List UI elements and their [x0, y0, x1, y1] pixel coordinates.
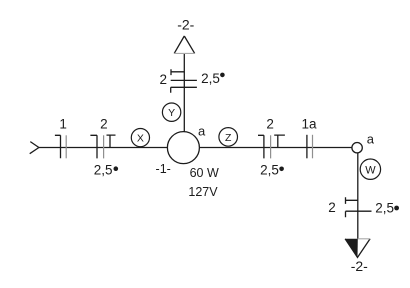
svg-text:2: 2 — [100, 117, 108, 132]
conductor marks circuit 2 left (return with flag) — [90, 135, 97, 158]
node a (junction circle) — [352, 143, 362, 153]
svg-text:2,5: 2,5 — [94, 163, 113, 178]
svg-text:1: 1 — [59, 117, 67, 132]
conductor marks circuit 2 left (phase, light) — [103, 135, 105, 158]
lamp 60W 127V — [167, 132, 199, 164]
svg-text:a: a — [198, 123, 206, 138]
conductor marks circuit 1a (light) — [312, 135, 314, 159]
conductor marks circuit 2 right (neutral with T bar) — [274, 135, 285, 147]
wire main horizontal left segment — [39, 147, 168, 149]
conductor marks circuit 2 right (phase, light) — [270, 135, 272, 158]
svg-text:Z: Z — [225, 132, 232, 144]
wire vertical top branch — [183, 54, 185, 132]
svg-text:-2-: -2- — [351, 258, 368, 274]
conductor marks W branch (return with flag) — [346, 211, 372, 217]
conductor marks top branch (return with flag) — [171, 87, 197, 92]
conductor marks top branch (phase) — [171, 79, 197, 81]
conductor marks circuit 1 (return with flag) — [55, 135, 61, 158]
svg-text:1a: 1a — [301, 117, 317, 132]
conductor marks circuit 2 right (return with flag) — [258, 135, 264, 158]
svg-text:-2-: -2- — [177, 16, 194, 32]
svg-text:60 W: 60 W — [190, 166, 219, 180]
svg-text:2: 2 — [160, 72, 168, 87]
svg-text:2,5: 2,5 — [375, 201, 394, 216]
svg-text:a: a — [367, 132, 375, 147]
svg-text:2,5: 2,5 — [260, 163, 279, 178]
device X — [131, 129, 149, 147]
conductor marks circuit 1a (dark) — [306, 135, 308, 159]
svg-text:2: 2 — [266, 117, 274, 132]
conductor marks top branch (neutral with T bar) — [171, 69, 184, 75]
bullet 2,5 top — [220, 73, 225, 78]
device Y — [162, 103, 180, 121]
bullet 2,5 left — [114, 166, 119, 171]
feeder arrow (supply chevron) — [30, 142, 39, 154]
wire main horizontal right segment — [199, 147, 351, 149]
device Z — [219, 128, 238, 147]
svg-text:X: X — [137, 133, 144, 145]
svg-text:2: 2 — [328, 200, 336, 215]
svg-text:-1-: -1- — [156, 162, 171, 176]
wire vertical right branch — [357, 153, 359, 239]
conductor marks circuit 2 left (neutral with T bar) — [107, 135, 116, 147]
device W — [360, 159, 380, 179]
conductor marks circuit 1 (phase, light) — [65, 135, 67, 158]
outlet triangle top (open) — [174, 36, 195, 53]
svg-text:W: W — [365, 164, 376, 176]
outlet triangle bottom (half filled) — [345, 239, 370, 258]
bullet 2,5 right — [279, 167, 284, 172]
svg-text:2,5: 2,5 — [201, 71, 220, 86]
conductor marks W branch (neutral with T bar) — [346, 197, 358, 204]
svg-text:Y: Y — [168, 107, 175, 119]
svg-text:127V: 127V — [188, 185, 218, 199]
bullet 2,5 W branch — [394, 206, 399, 211]
